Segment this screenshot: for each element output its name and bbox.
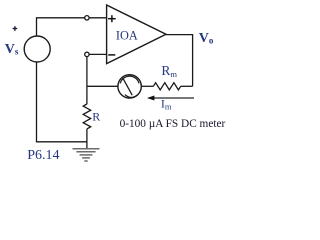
- meter M1 (galvanometer): [118, 75, 141, 98]
- ground: [73, 149, 100, 161]
- wire output: op-amp apex to Vo corner and down: [166, 35, 193, 87]
- wire node to op-amp - input: [89, 53, 106, 55]
- wire ground stub: [86, 142, 88, 149]
- op-amp + input mark: [108, 15, 116, 22]
- wire left rail: source bottom down and along bottom: [37, 62, 88, 142]
- svg-text:Vo: Vo: [199, 31, 214, 46]
- svg-text:0-100 µA FS DC meter: 0-100 µA FS DC meter: [120, 118, 226, 130]
- wire Rm to right rail: [181, 85, 193, 87]
- node - input terminal: [85, 52, 89, 56]
- wire - node down to meter junction: [86, 57, 88, 105]
- svg-text:IOA: IOA: [116, 29, 138, 43]
- wire meter to Rm: [141, 85, 153, 87]
- svg-text:Rm: Rm: [161, 63, 177, 79]
- label + polarity above Vs: [13, 26, 18, 31]
- op-amp - input mark: [108, 54, 115, 56]
- svg-text:P6.14: P6.14: [27, 148, 59, 163]
- resistor Rm zigzag: [153, 83, 180, 90]
- wire node to op-amp + input: [89, 17, 106, 19]
- voltage source Vs circle: [24, 36, 50, 62]
- svg-text:R: R: [92, 110, 100, 124]
- op-amp U1 triangle: [107, 5, 166, 64]
- wire top: source riser to + input node: [37, 18, 85, 36]
- svg-text:Im: Im: [161, 97, 172, 112]
- wire junction to meter: [87, 85, 118, 87]
- wire R bottom to ground junction: [86, 129, 88, 142]
- arrow Im current direction: [153, 97, 195, 99]
- resistor R zigzag: [83, 104, 91, 129]
- svg-text:Vs: Vs: [5, 42, 19, 57]
- node + input terminal: [85, 16, 89, 20]
